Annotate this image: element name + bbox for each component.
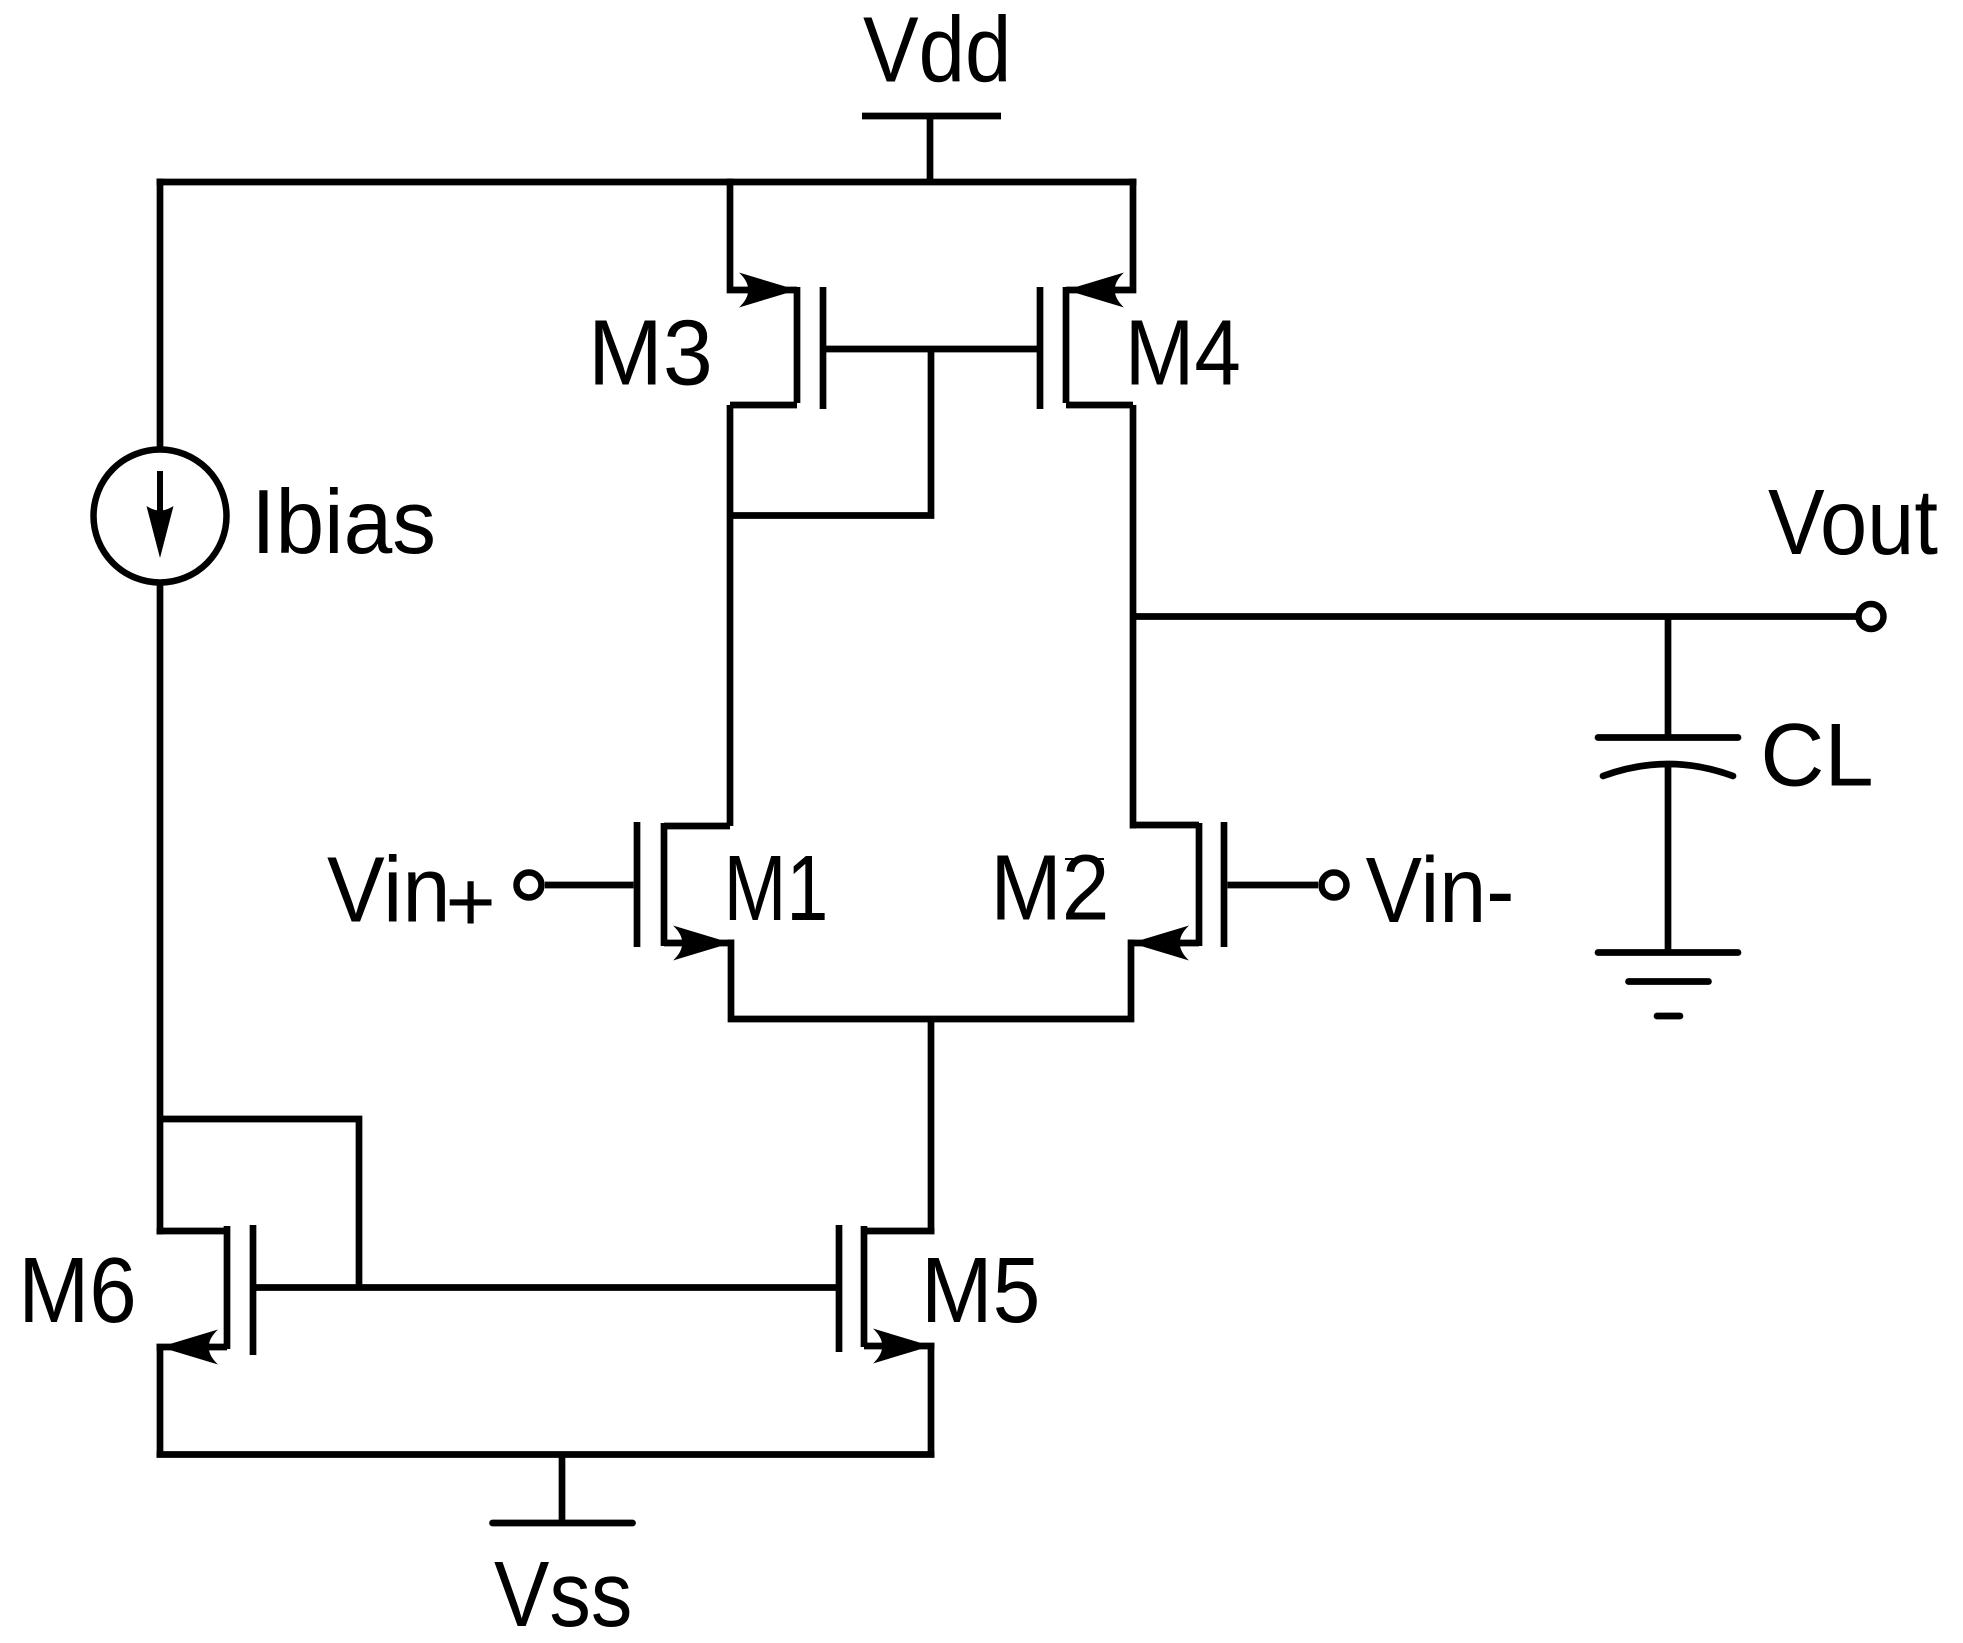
svg-text:+: + (446, 854, 496, 950)
svg-text:CL: CL (1760, 704, 1873, 804)
wire: M6-M5 gate line (253, 1284, 839, 1291)
power symbol Vss (493, 1455, 633, 1524)
wire: M5 source to Vss rail (928, 1346, 935, 1455)
wire: M3 drain to M1 drain (727, 405, 734, 826)
svg-text:M1: M1 (724, 836, 829, 940)
ground (1598, 953, 1738, 1017)
transistor M5 (839, 1225, 935, 1364)
stray mark above M2 label (1065, 858, 1104, 860)
svg-text:Vin: Vin (327, 837, 451, 941)
transistor M2 (1131, 822, 1224, 961)
transistor M6 (157, 1225, 254, 1365)
transistor M1 (637, 822, 731, 961)
wire: M6 source to Vss rail (157, 1347, 164, 1455)
transistor M3 (730, 179, 823, 410)
wire: M3 gate-drain connection (730, 349, 931, 516)
wire: tail vertical (diff pair sources to M5 drain) (928, 1019, 935, 1231)
wire: Vss rail (157, 1451, 935, 1458)
wire: Vout net (1133, 613, 1859, 620)
wire: diff pair source bus (731, 940, 1131, 1020)
terminal Vin- (1228, 873, 1347, 898)
wire: M3-M4 gate line (823, 346, 1040, 353)
svg-text:Ibias: Ibias (251, 472, 436, 573)
svg-text:M4: M4 (1125, 301, 1241, 405)
terminal Vin+ (517, 873, 634, 898)
svg-text:M6: M6 (18, 1238, 136, 1342)
svg-text:Vout: Vout (1768, 470, 1938, 574)
svg-text:Vss: Vss (494, 1542, 632, 1643)
capacitor CL (1598, 617, 1738, 953)
transistor M4 (1040, 179, 1133, 410)
svg-text:Vdd: Vdd (863, 0, 1011, 102)
power symbol Vdd (862, 116, 1001, 182)
current source Ibias (94, 450, 227, 583)
svg-text:M5: M5 (921, 1238, 1040, 1342)
wire: rail to Ibias (left vertical top) (157, 179, 164, 451)
wire: Ibias to M6 drain (left vertical bottom) (157, 582, 164, 1235)
terminal Vout (1859, 604, 1884, 629)
wire: M6 gate-drain jog (160, 1119, 359, 1288)
svg-text:M2: M2 (990, 836, 1109, 940)
wire: Vdd rail (157, 179, 1137, 186)
wire: M4 drain to M2 drain (Vout branch) (1130, 405, 1137, 829)
svg-text:Vin-: Vin- (1366, 838, 1515, 942)
svg-text:M3: M3 (588, 300, 713, 404)
